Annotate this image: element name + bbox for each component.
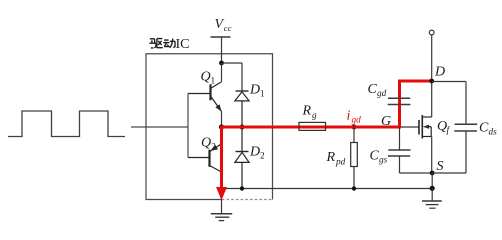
svg-text:C: C [368,82,378,97]
svg-text:R: R [302,104,312,119]
wire S to ground node [431,173,433,188]
node diode branch junction [240,125,245,130]
svg-text:1: 1 [260,90,265,100]
wire D to Cds [432,81,466,83]
diode D1 [235,91,249,127]
Vcc bar symbol [211,36,231,38]
wire node to Q1 collector [221,63,223,82]
transistor Q1 [188,82,222,112]
svg-text:D: D [434,65,445,80]
svg-text:C: C [370,149,380,164]
wire input to driver IC [131,126,188,128]
svg-text:gd: gd [377,89,387,99]
wire S to Cds [432,172,466,174]
svg-text:C: C [479,121,489,136]
svg-text:pd: pd [335,158,346,168]
ground (driver) [211,200,232,221]
transistor Q2 [188,144,222,172]
svg-text:f: f [447,125,451,136]
node Rpd bottom on rail [352,186,356,190]
MOSFET Qf [419,115,432,139]
svg-text:Q: Q [201,69,211,84]
input square wave [8,111,125,137]
node Vcc rail junction [219,61,224,66]
svg-text:G: G [381,114,391,129]
input junction vertical [187,94,189,158]
svg-text:IC: IC [176,37,190,52]
capacitor Cgd plates [388,98,411,104]
node D2 anode on rail [240,186,244,190]
driver IC box [146,54,273,200]
ground (source) [422,188,442,208]
wire Q1 emitter to output node [221,112,223,128]
svg-text:cc: cc [224,23,232,33]
capacitor Cgs [400,127,433,173]
svg-text:D: D [249,145,260,160]
capacitor Cds [465,82,467,174]
resistor Rpd [353,127,355,189]
svg-text:D: D [249,83,260,98]
svg-text:R: R [326,150,336,165]
svg-text:gd: gd [352,115,362,125]
svg-text:gs: gs [379,156,388,166]
terminal circle top [429,30,434,35]
diode D2 [235,127,249,189]
wire drain vertical [431,35,433,117]
wire node to D1 branch [222,63,243,91]
wire source vertical [431,137,433,174]
node D [429,79,434,84]
svg-text:i: i [347,108,351,123]
bottom rail [222,188,433,190]
red current arrowhead [216,187,227,200]
node S ground junction [430,186,435,191]
resistor Rg [299,122,326,130]
node Rpd top junction [352,125,357,130]
node S [430,171,435,176]
wire Vcc to node [221,37,223,63]
label 驱动IC [149,39,175,48]
svg-text:ds: ds [489,128,498,138]
svg-text:Q: Q [201,136,211,151]
node output junction [219,124,224,129]
svg-text:S: S [437,159,444,174]
svg-text:2: 2 [260,152,265,162]
wire gate (G to MOSFET) [400,126,420,128]
svg-text:g: g [312,111,317,121]
red gate current path [222,81,432,187]
